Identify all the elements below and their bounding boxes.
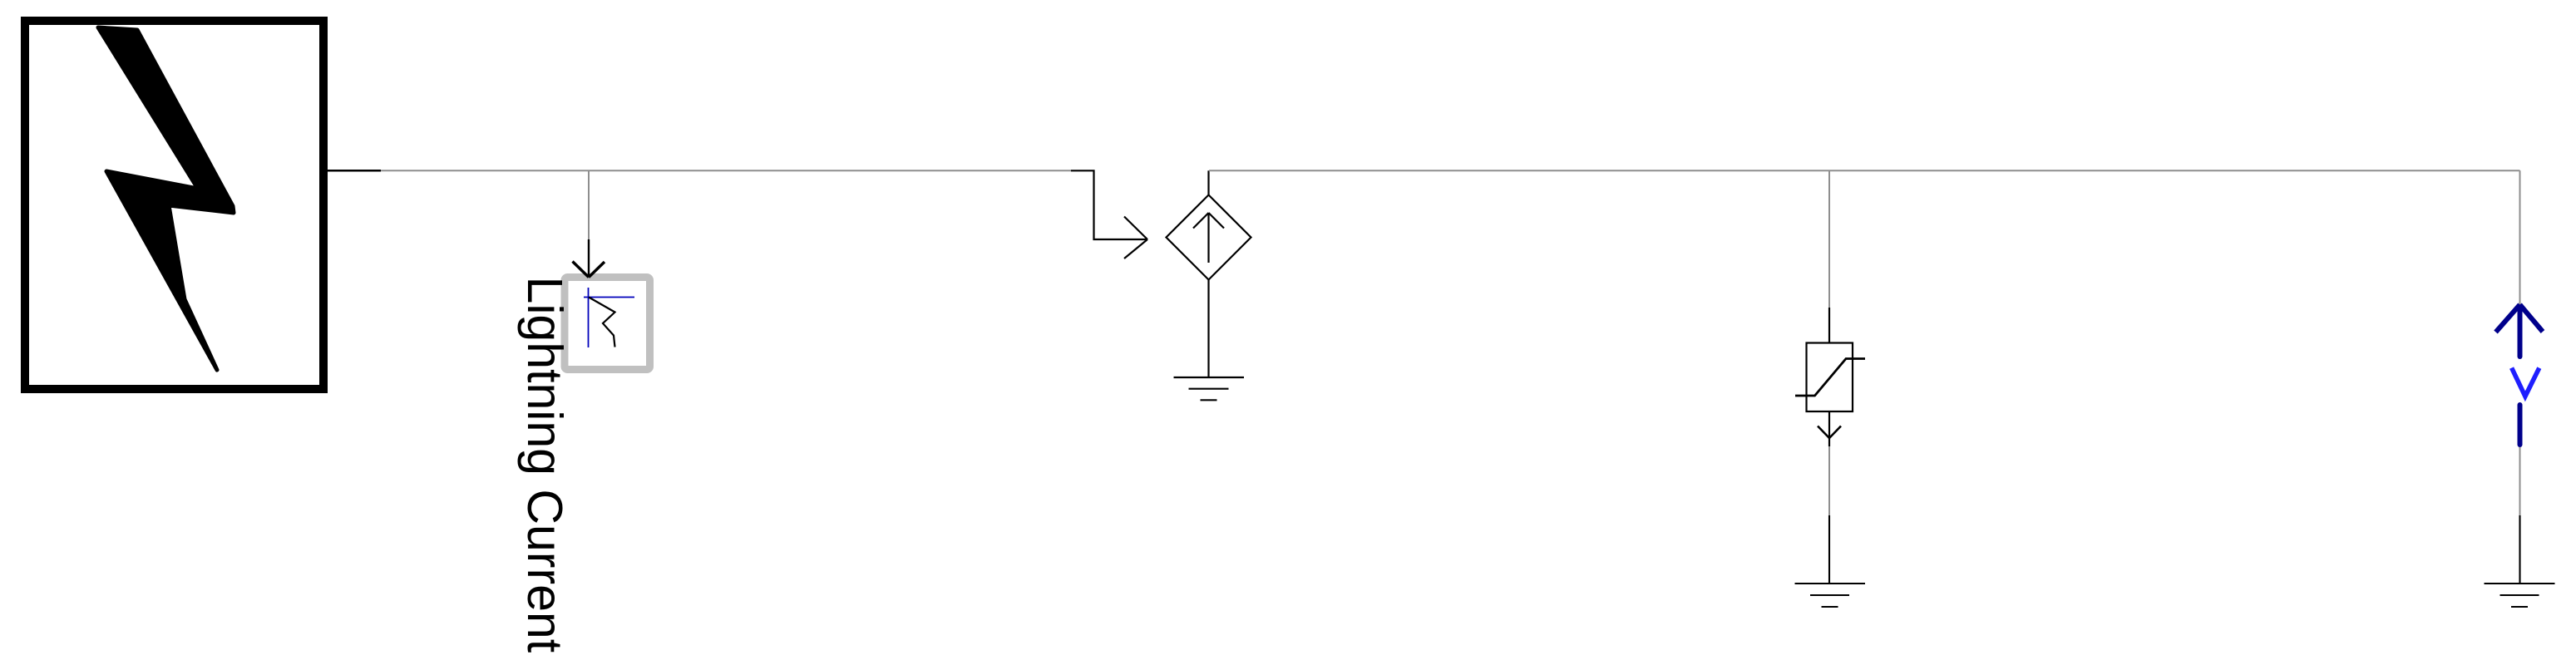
wire: rail corner + right probe drop (gray) — [2519, 170, 2521, 306]
arrow inside diamond — [1193, 213, 1224, 263]
ground under dependent source — [1174, 377, 1245, 400]
wire: diamond bottom pin to ground — [1207, 280, 1209, 378]
varistor characteristic diagonal — [1795, 359, 1865, 396]
wire: main rail left segment — [381, 170, 1071, 171]
wire: varistor top pin stub — [1828, 308, 1830, 343]
wire: probe drop (gray) — [588, 170, 590, 240]
wire: varistor branch bottom (gray) — [1828, 446, 1830, 515]
label V — [2512, 368, 2539, 396]
wire: main rail right segment — [1209, 170, 2520, 171]
control jog wire with arrowhead into dependent source — [1071, 170, 1147, 259]
arrow into probe icon — [573, 239, 605, 278]
ground at right probe — [2485, 515, 2555, 607]
wire: black pin stub from surge box — [328, 170, 381, 172]
wire: diamond top pin — [1207, 170, 1209, 195]
svg-text:Lightning Current: Lightning Current — [517, 277, 572, 653]
wire: varistor branch top (gray) — [1828, 170, 1830, 308]
varistor box — [1807, 343, 1853, 412]
lightning bolt glyph — [98, 27, 234, 370]
dependent current source B1 (diamond) — [1167, 195, 1251, 280]
wire: right branch lower (gray) — [2519, 446, 2521, 515]
voltmeter lower dash (navy) — [2518, 405, 2523, 445]
probe icon impulse waveform — [589, 298, 615, 347]
probe icon axes (blue) — [584, 288, 634, 347]
lightning surge source frame — [25, 21, 323, 389]
ground under varistor — [1795, 515, 1866, 607]
voltmeter probe arrow (navy) — [2496, 305, 2544, 357]
current-probe icon box (gray) — [565, 278, 650, 370]
varistor bottom pin with arrowhead — [1818, 411, 1841, 446]
